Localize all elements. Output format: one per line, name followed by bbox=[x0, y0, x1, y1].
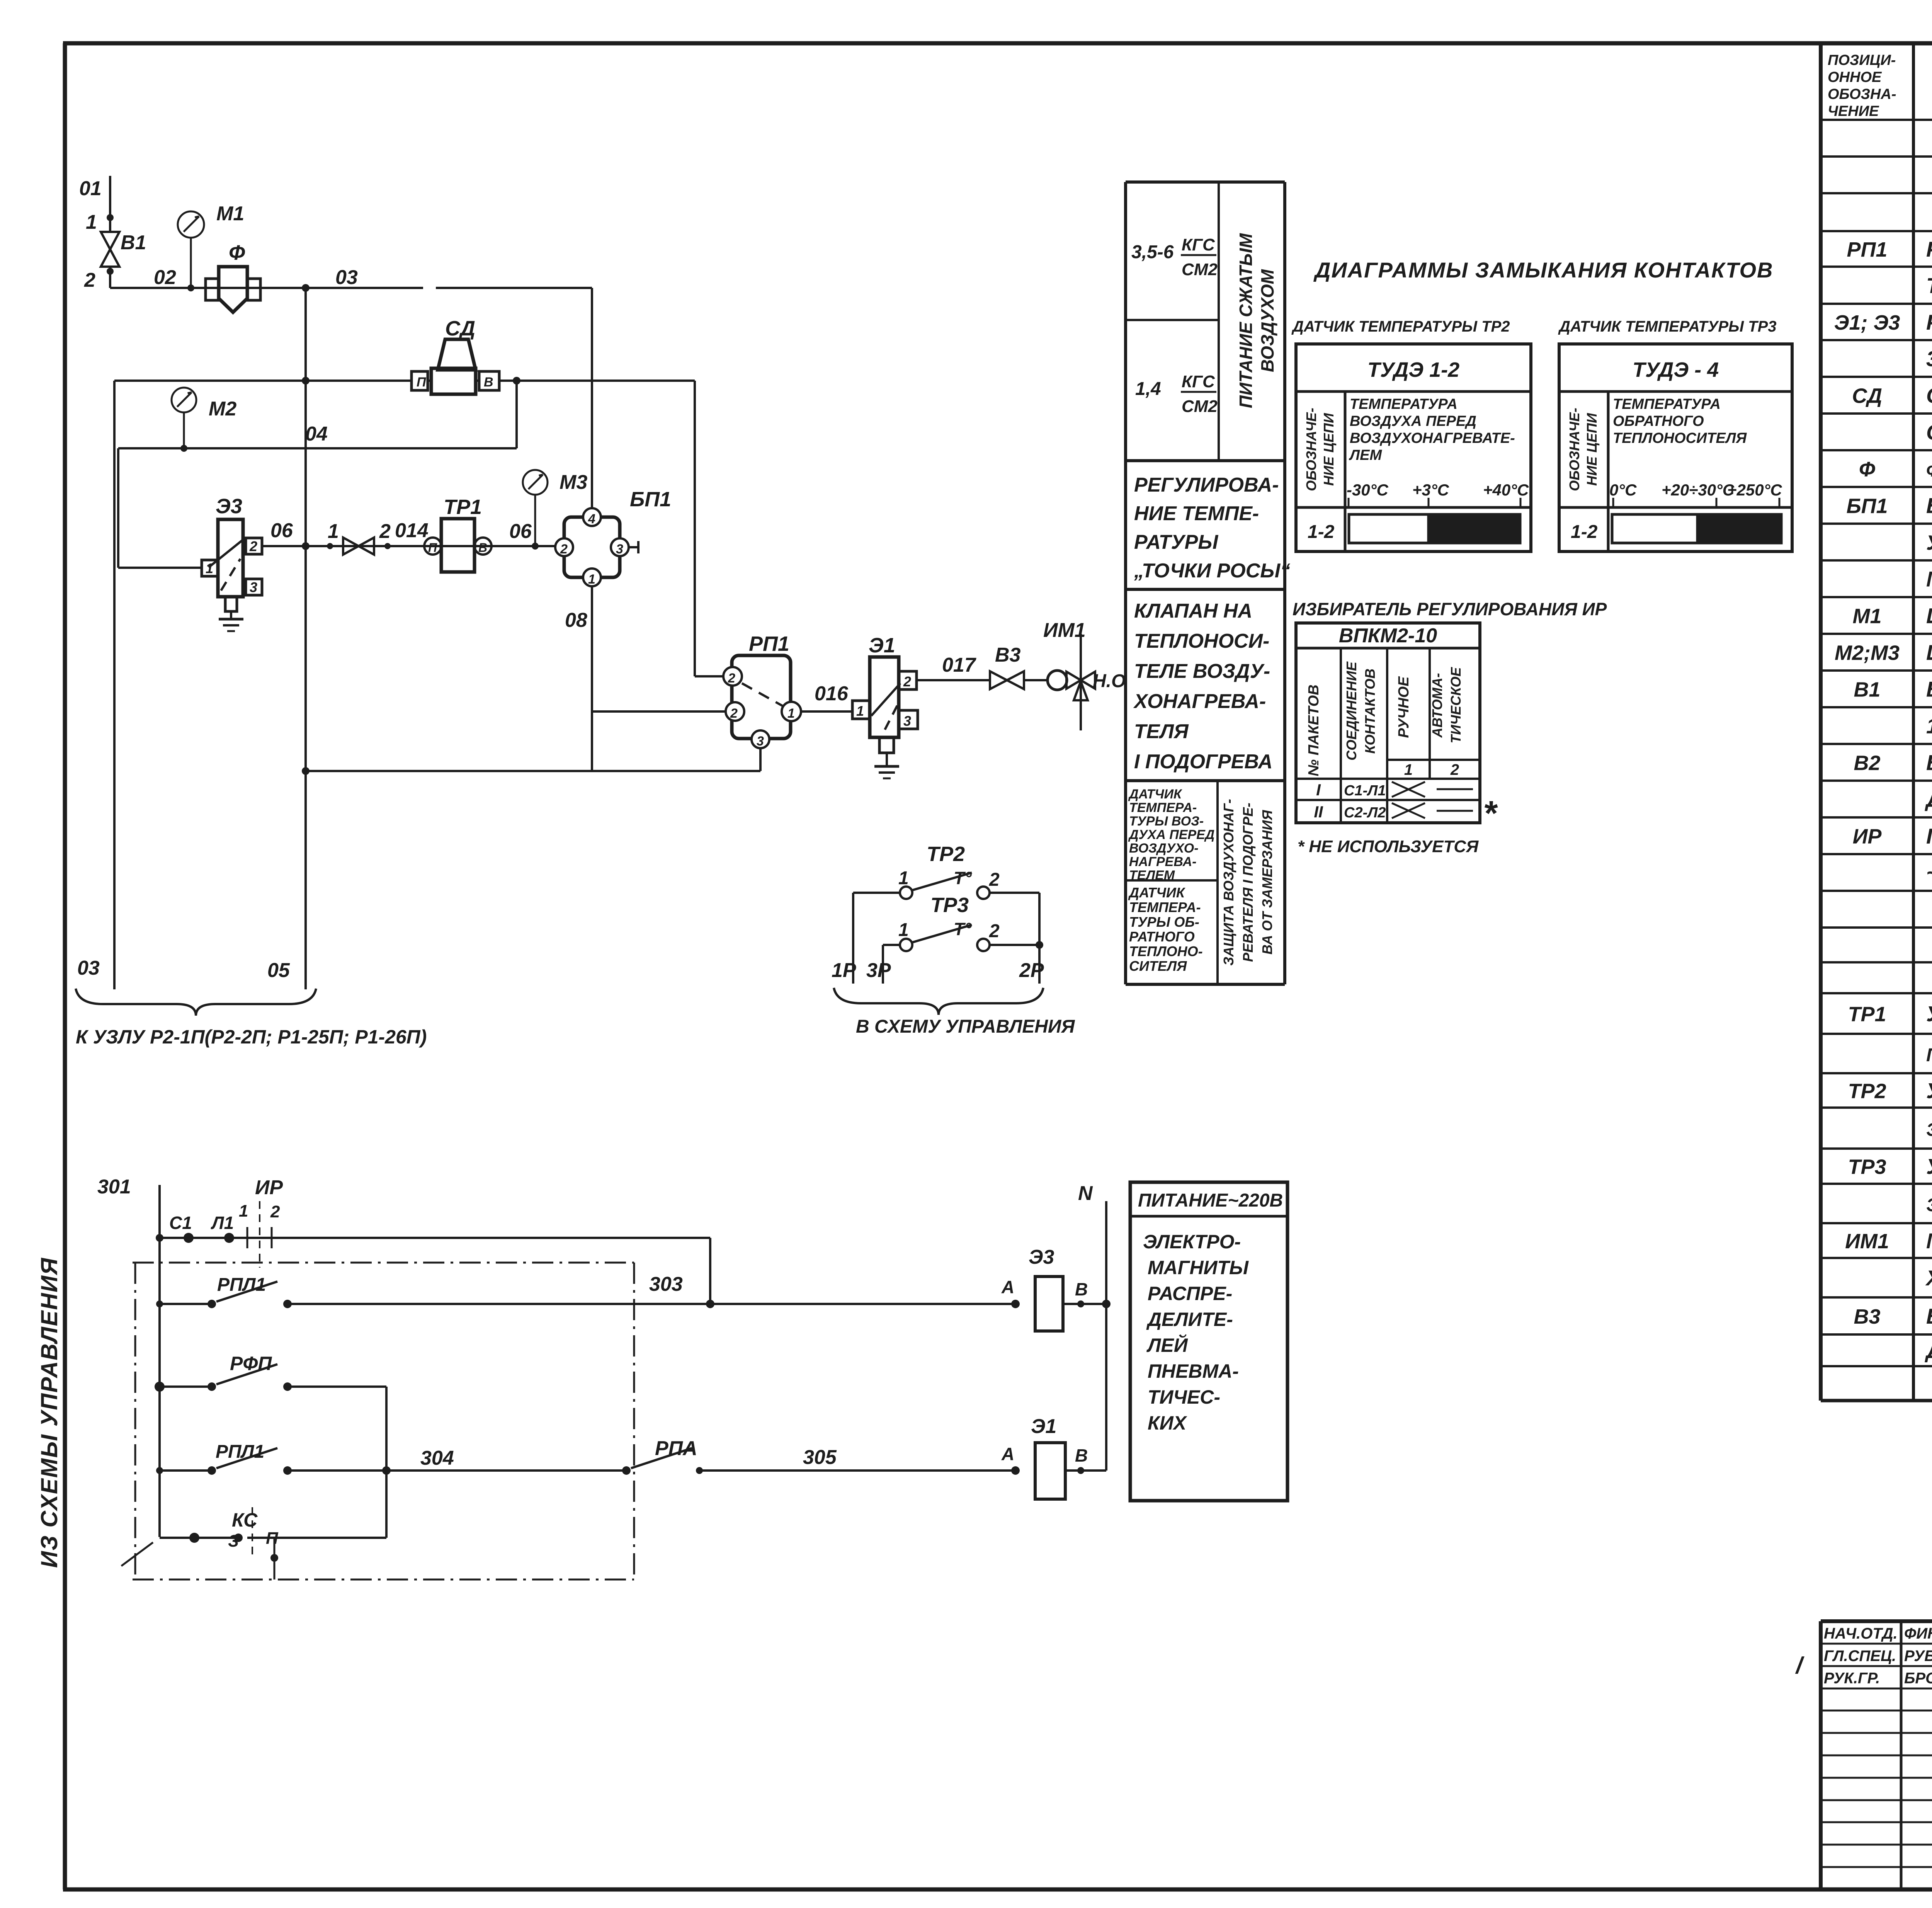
svg-text:* НЕ ИСПОЛЬЗУЕТСЯ: * НЕ ИСПОЛЬЗУЕТСЯ bbox=[1298, 837, 1479, 856]
svg-text:ПИТАНИЕ СЖАТЫМ: ПИТАНИЕ СЖАТЫМ bbox=[1236, 233, 1256, 408]
svg-text:РЕВАТЕЛЯ I ПОДОГРЕ-: РЕВАТЕЛЯ I ПОДОГРЕ- bbox=[1240, 803, 1256, 962]
svg-text:УСТРОЙСТВО ТЕРМОРЕГУЛИРУЮЩЕЕ: УСТРОЙСТВО ТЕРМОРЕГУЛИРУЮЩЕЕ bbox=[1926, 1002, 1932, 1026]
svg-text:МАГНИТЫ: МАГНИТЫ bbox=[1148, 1257, 1249, 1278]
svg-text:НАГРЕВА-: НАГРЕВА- bbox=[1129, 854, 1196, 869]
svg-text:КГС: КГС bbox=[1182, 372, 1215, 391]
svg-text:ЭЛЕКТРИЧЕСКОЕ ТУДЭ-1-2 ТУ25-: ЭЛЕКТРИЧЕСКОЕ ТУДЭ-1-2 ТУ25-02.1075-75 bbox=[1926, 1119, 1932, 1140]
svg-text:В СХЕМУ УПРАВЛЕНИЯ: В СХЕМУ УПРАВЛЕНИЯ bbox=[856, 1016, 1075, 1037]
svg-text:04: 04 bbox=[305, 423, 328, 445]
svg-text:ИР: ИР bbox=[1853, 825, 1882, 848]
svg-text:I ПОДОГРЕВА: I ПОДОГРЕВА bbox=[1134, 751, 1272, 773]
svg-text:СИТЕЛЯ: СИТЕЛЯ bbox=[1129, 958, 1187, 974]
svg-text:М1: М1 bbox=[216, 203, 244, 225]
svg-text:А: А bbox=[1001, 1444, 1014, 1464]
svg-text:ТЕПЛОНО-: ТЕПЛОНО- bbox=[1129, 943, 1203, 959]
svg-text:РЕГУЛИРОВА-: РЕГУЛИРОВА- bbox=[1134, 474, 1279, 496]
svg-text:4: 4 bbox=[588, 512, 595, 526]
svg-text:МАНОМЕТРЫ МТ-2 ТУ25-02.72-: МАНОМЕТРЫ МТ-2 ТУ25-02.72-75 bbox=[1926, 567, 1932, 591]
svg-text:РПЛ1: РПЛ1 bbox=[216, 1442, 264, 1462]
svg-text:НАЧ.ОТД.: НАЧ.ОТД. bbox=[1824, 1625, 1898, 1642]
svg-text:Н.О: Н.О bbox=[1093, 671, 1126, 691]
svg-text:ДАТЧИК ТЕМПЕРАТУРЫ ТР3: ДАТЧИК ТЕМПЕРАТУРЫ ТР3 bbox=[1558, 318, 1777, 335]
svg-text:ПНЕВМАТИЧЕСКОЕ ТУДП-М-1 ТУ25-0: ПНЕВМАТИЧЕСКОЕ ТУДП-М-1 ТУ25-02.1297-74 bbox=[1926, 1045, 1932, 1065]
svg-text:С2-Л2: С2-Л2 bbox=[1344, 805, 1386, 821]
svg-text:ТЕПЛОНОСИ-: ТЕПЛОНОСИ- bbox=[1134, 630, 1269, 652]
svg-text:014: 014 bbox=[395, 519, 429, 542]
svg-text:ДАТЧИК: ДАТЧИК bbox=[1128, 787, 1182, 802]
svg-text:ТР1: ТР1 bbox=[444, 495, 482, 519]
svg-text:В1: В1 bbox=[1854, 678, 1880, 701]
svg-text:РФП: РФП bbox=[230, 1353, 272, 1374]
svg-text:ТУДЭ 1-2: ТУДЭ 1-2 bbox=[1367, 358, 1459, 381]
svg-text:ШКАЛА 0÷2,5КГС/СМ2: ШКАЛА 0÷2,5КГС/СМ2 bbox=[1926, 640, 1932, 665]
svg-text:В: В bbox=[478, 541, 487, 555]
svg-text:МЕМБРАННЫЙ ИСПОЛНИТЕЛЬНЫЙ МЕ: МЕМБРАННЫЙ ИСПОЛНИТЕЛЬНЫЙ МЕ- bbox=[1926, 1229, 1932, 1253]
svg-text:ТЕМПЕРАТУРА: ТЕМПЕРАТУРА bbox=[1613, 396, 1721, 412]
svg-text:ИЗ СХЕМЫ УПРАВЛЕНИЯ: ИЗ СХЕМЫ УПРАВЛЕНИЯ bbox=[36, 1257, 62, 1568]
svg-text:РП1: РП1 bbox=[749, 632, 789, 655]
svg-text:ЧЕНИЕ: ЧЕНИЕ bbox=[1828, 103, 1879, 119]
svg-text:06: 06 bbox=[270, 519, 293, 542]
svg-text:РУК.ГР.: РУК.ГР. bbox=[1824, 1670, 1880, 1687]
svg-text:+20÷30°С: +20÷30°С bbox=[1662, 481, 1735, 499]
svg-text:РАТУРЫ: РАТУРЫ bbox=[1134, 531, 1218, 553]
svg-text:КЛАПАН НА: КЛАПАН НА bbox=[1134, 600, 1252, 622]
svg-text:ДАТЧИК ТЕМПЕРАТУРЫ ТР2: ДАТЧИК ТЕМПЕРАТУРЫ ТР2 bbox=[1291, 318, 1510, 335]
svg-text:ТИЧЕС-: ТИЧЕС- bbox=[1148, 1386, 1220, 1408]
svg-text:3х ХОДОВОЙ 22КЧ8016К ТУ25-07.0: 3х ХОДОВОЙ 22КЧ8016К ТУ25-07.034-76 bbox=[1926, 346, 1932, 371]
svg-text:ЭЛЕКТРИЧЕСКОЕ ТУДЭ-4 ТУ25-0: ЭЛЕКТРИЧЕСКОЕ ТУДЭ-4 ТУ25-02.1075-75 bbox=[1926, 1195, 1932, 1215]
svg-text:ТУРЫ ОБ-: ТУРЫ ОБ- bbox=[1129, 914, 1199, 930]
svg-text:СД: СД bbox=[445, 317, 475, 340]
svg-text:03: 03 bbox=[77, 957, 100, 979]
svg-text:2: 2 bbox=[249, 538, 257, 554]
svg-text:ТР3: ТР3 bbox=[930, 894, 969, 917]
svg-text:ВЕНТИЛЬ ДИАФРАГМОВЫЙ ВПД-: ВЕНТИЛЬ ДИАФРАГМОВЫЙ ВПД-4, bbox=[1926, 1304, 1932, 1328]
svg-text:РЕЛЕ ПЕРЕКЛЮЧЕНИЯ ПП2,5: РЕЛЕ ПЕРЕКЛЮЧЕНИЯ ПП2,5 bbox=[1926, 237, 1932, 261]
svg-text:Ф: Ф bbox=[229, 241, 245, 264]
svg-text:М1: М1 bbox=[1852, 605, 1881, 628]
svg-text:РП1: РП1 bbox=[1847, 238, 1888, 261]
svg-text:06: 06 bbox=[509, 520, 532, 543]
svg-text:3,5-6: 3,5-6 bbox=[1131, 242, 1174, 262]
svg-text:ТР2: ТР2 bbox=[927, 843, 965, 866]
svg-text:ЛЕМ: ЛЕМ bbox=[1349, 447, 1382, 463]
svg-text:Э1: Э1 bbox=[1031, 1415, 1056, 1438]
svg-text:А: А bbox=[1001, 1277, 1014, 1297]
svg-text:ОННОЕ: ОННОЕ bbox=[1828, 69, 1882, 85]
svg-text:БАЙПАСНАЯ ПАНЕЛЬ ДИСТАНЦИОНН: БАЙПАСНАЯ ПАНЕЛЬ ДИСТАНЦИОННОГО bbox=[1926, 494, 1932, 518]
svg-text:КС: КС bbox=[232, 1509, 258, 1531]
svg-text:0°С: 0°С bbox=[1609, 481, 1637, 499]
svg-text:ТР2: ТР2 bbox=[1848, 1080, 1886, 1103]
svg-text:НИЕ ТЕМПЕ-: НИЕ ТЕМПЕ- bbox=[1134, 502, 1259, 525]
svg-text:+40°С: +40°С bbox=[1483, 481, 1529, 499]
svg-text:ТР3: ТР3 bbox=[1848, 1156, 1886, 1179]
svg-text:+3°С: +3°С bbox=[1412, 481, 1449, 499]
svg-text:N: N bbox=[1078, 1182, 1093, 1205]
svg-text:2: 2 bbox=[728, 671, 735, 686]
svg-text:ТИЧЕСКОЕ: ТИЧЕСКОЕ bbox=[1448, 667, 1464, 743]
svg-text:Э3: Э3 bbox=[1029, 1246, 1054, 1268]
svg-text:2: 2 bbox=[730, 706, 738, 721]
svg-text:08: 08 bbox=[565, 609, 587, 631]
svg-text:БП1: БП1 bbox=[1846, 495, 1888, 518]
svg-text:3: 3 bbox=[250, 579, 257, 595]
svg-text:ТЕМПЕРАТУРА: ТЕМПЕРАТУРА bbox=[1350, 396, 1458, 412]
svg-text:ВА ОТ ЗАМЕРЗАНИЯ: ВА ОТ ЗАМЕРЗАНИЯ bbox=[1259, 810, 1275, 954]
svg-text:2: 2 bbox=[84, 269, 95, 291]
svg-text:*: * bbox=[1483, 794, 1498, 833]
svg-text:ДЕЛИТЕ-: ДЕЛИТЕ- bbox=[1146, 1309, 1233, 1330]
svg-text:+250°С: +250°С bbox=[1727, 481, 1782, 499]
svg-text:ХОНАГРЕВА-: ХОНАГРЕВА- bbox=[1133, 690, 1266, 713]
svg-text:С1: С1 bbox=[169, 1213, 192, 1233]
svg-text:В: В bbox=[1075, 1445, 1088, 1465]
svg-text:СОЕДИНЕНИЕ: СОЕДИНЕНИЕ bbox=[1344, 661, 1359, 761]
svg-text:М2;М3: М2;М3 bbox=[1835, 642, 1900, 665]
svg-text:2: 2 bbox=[560, 542, 568, 557]
svg-text:Ф: Ф bbox=[1859, 458, 1875, 481]
svg-text:Э3: Э3 bbox=[216, 495, 242, 518]
svg-text:П: П bbox=[428, 541, 437, 555]
svg-text:1: 1 bbox=[898, 868, 909, 888]
svg-text:С1-Л1: С1-Л1 bbox=[1344, 783, 1386, 799]
svg-text:КОНТАКТОВ: КОНТАКТОВ bbox=[1362, 669, 1378, 754]
svg-text:СМ2: СМ2 bbox=[1182, 397, 1218, 416]
svg-text:II: II bbox=[1314, 803, 1323, 821]
svg-text:3: 3 bbox=[616, 542, 623, 557]
svg-text:ЗАЩИТА ВОЗДУХОНАГ-: ЗАЩИТА ВОЗДУХОНАГ- bbox=[1221, 799, 1236, 965]
svg-text:ЭЛЕКТРО-: ЭЛЕКТРО- bbox=[1143, 1231, 1241, 1253]
svg-text:П: П bbox=[417, 375, 427, 390]
svg-text:2: 2 bbox=[989, 921, 1000, 941]
svg-text:ТЕМПЕРА-: ТЕМПЕРА- bbox=[1129, 800, 1197, 815]
svg-text:СМ2: СМ2 bbox=[1182, 260, 1218, 279]
svg-text:РПА: РПА bbox=[655, 1437, 697, 1460]
svg-text:1: 1 bbox=[1404, 761, 1413, 778]
svg-text:ХАНИЗМ ГОСТ 9086-74: ХАНИЗМ ГОСТ 9086-74 bbox=[1925, 1266, 1932, 1290]
svg-text:„ТОЧКИ РОСЫ“: „ТОЧКИ РОСЫ“ bbox=[1134, 560, 1290, 582]
svg-text:1: 1 bbox=[239, 1202, 248, 1220]
svg-text:1: 1 bbox=[206, 560, 213, 576]
svg-text:В2: В2 bbox=[1854, 752, 1880, 775]
svg-text:ДУ4 ТУ26-07.1085-74: ДУ4 ТУ26-07.1085-74 bbox=[1925, 1338, 1932, 1363]
svg-text:М2: М2 bbox=[209, 398, 236, 420]
svg-text:1: 1 bbox=[86, 211, 97, 233]
svg-text:ГЛ.СПЕЦ.: ГЛ.СПЕЦ. bbox=[1824, 1648, 1896, 1665]
svg-text:М3: М3 bbox=[560, 471, 587, 494]
svg-text:СДВ Б ТУ25-02.280.656-76: СДВ Б ТУ25-02.280.656-76 bbox=[1926, 420, 1932, 444]
svg-text:ИМ1: ИМ1 bbox=[1043, 619, 1086, 642]
svg-text:КГС: КГС bbox=[1182, 235, 1215, 254]
svg-text:016: 016 bbox=[815, 683, 849, 705]
svg-text:1-2: 1-2 bbox=[1571, 522, 1598, 542]
svg-text:05: 05 bbox=[267, 959, 290, 982]
svg-text:УПРАВЛЕНИЯ БПДУ-А ТУ25-04.27: УПРАВЛЕНИЯ БПДУ-А ТУ25-04.2712-75 bbox=[1926, 531, 1932, 555]
svg-text:2Р: 2Р bbox=[1019, 959, 1044, 982]
svg-text:1: 1 bbox=[898, 920, 909, 940]
svg-text:БП1: БП1 bbox=[630, 488, 671, 511]
svg-text:017: 017 bbox=[942, 654, 976, 676]
svg-text:303: 303 bbox=[649, 1273, 683, 1295]
svg-text:ШКАЛА 0÷10 КГС/СМ2: ШКАЛА 0÷10 КГС/СМ2 bbox=[1926, 604, 1932, 628]
svg-text:1: 1 bbox=[856, 703, 864, 719]
svg-text:ИМ1: ИМ1 bbox=[1845, 1230, 1889, 1253]
svg-text:ДУ4 ТУ26-07.1085-7: ДУ4 ТУ26-07.1085-74 bbox=[1925, 787, 1932, 812]
svg-text:304: 304 bbox=[420, 1447, 454, 1469]
svg-text:ВЕНТИЛЬ ЗАПОРНЫЙ МУФТОВЫЙ: ВЕНТИЛЬ ЗАПОРНЫЙ МУФТОВЫЙ bbox=[1926, 677, 1932, 701]
svg-text:ТУРЫ ВОЗ-: ТУРЫ ВОЗ- bbox=[1129, 814, 1204, 829]
svg-text:ПОЗИЦИ-: ПОЗИЦИ- bbox=[1828, 52, 1896, 68]
svg-text:НИЕ ЦЕПИ: НИЕ ЦЕПИ bbox=[1584, 413, 1600, 486]
svg-text:1,4: 1,4 bbox=[1135, 379, 1161, 399]
svg-text:РПЛ1: РПЛ1 bbox=[217, 1275, 266, 1295]
svg-text:НИЕ ЦЕПИ: НИЕ ЦЕПИ bbox=[1321, 413, 1337, 486]
svg-text:РУБЧИНСКИЙ: РУБЧИНСКИЙ bbox=[1904, 1646, 1932, 1665]
svg-text:ВОЗДУХОМ: ВОЗДУХОМ bbox=[1257, 269, 1277, 372]
svg-text:В: В bbox=[484, 375, 493, 390]
svg-text:В: В bbox=[1075, 1279, 1088, 1299]
svg-text:ТУ25-03.1369-72: ТУ25-03.1369-72 bbox=[1926, 273, 1932, 298]
svg-text:РАСПРЕ-: РАСПРЕ- bbox=[1148, 1283, 1232, 1304]
svg-text:ДУХА ПЕРЕД: ДУХА ПЕРЕД bbox=[1128, 827, 1214, 842]
svg-text:305: 305 bbox=[803, 1446, 837, 1469]
svg-text:АВТОМА-: АВТОМА- bbox=[1429, 673, 1445, 738]
svg-text:ИР: ИР bbox=[255, 1176, 283, 1199]
svg-text:ТЕМПЕРА-: ТЕМПЕРА- bbox=[1129, 899, 1201, 915]
svg-text:3Р: 3Р bbox=[866, 959, 891, 982]
svg-text:ОБОЗНАЧЕ-: ОБОЗНАЧЕ- bbox=[1566, 408, 1582, 491]
svg-text:УСТРОЙСТВО ТЕРМОРЕГУЛИРУЮЩЕЕ: УСТРОЙСТВО ТЕРМОРЕГУЛИРУЮЩЕЕ bbox=[1926, 1079, 1932, 1103]
svg-text:1-2: 1-2 bbox=[1308, 522, 1335, 542]
svg-text:ДИАГРАММЫ ЗАМЫКАНИЯ КОНТАКТОВ: ДИАГРАММЫ ЗАМЫКАНИЯ КОНТАКТОВ bbox=[1313, 258, 1773, 282]
svg-text:2: 2 bbox=[270, 1202, 280, 1221]
svg-text:ДАТЧИК: ДАТЧИК bbox=[1128, 885, 1186, 900]
svg-text:/: / bbox=[1795, 1653, 1804, 1678]
svg-text:ВОЗДУХОНАГРЕВАТЕ-: ВОЗДУХОНАГРЕВАТЕ- bbox=[1350, 430, 1515, 446]
svg-text:ФИНГЕР: ФИНГЕР bbox=[1904, 1625, 1932, 1642]
svg-text:КИХ: КИХ bbox=[1148, 1412, 1187, 1434]
svg-text:15Б3РК; ДУ15 ГОСТ9086: 15Б3РК; ДУ15 ГОСТ9086-74 bbox=[1926, 714, 1932, 738]
svg-text:К УЗЛУ Р2-1П(Р2-2П; Р1-25П; Р1: К УЗЛУ Р2-1П(Р2-2П; Р1-25П; Р1-26П) bbox=[76, 1026, 427, 1048]
svg-text:ТЕПЛОНОСИТЕЛЯ: ТЕПЛОНОСИТЕЛЯ bbox=[1613, 430, 1747, 446]
svg-text:01: 01 bbox=[79, 177, 102, 200]
svg-text:Л1: Л1 bbox=[211, 1213, 234, 1233]
svg-text:УСТРОЙСТВО ТЕРМОРЕГУЛИРУЮЩЕЕ: УСТРОЙСТВО ТЕРМОРЕГУЛИРУЮЩЕЕ bbox=[1926, 1154, 1932, 1179]
svg-text:2: 2 bbox=[989, 870, 1000, 890]
svg-text:301: 301 bbox=[97, 1176, 131, 1198]
svg-text:-30°С: -30°С bbox=[1347, 481, 1388, 499]
svg-text:ТЕЛЕ ВОЗДУ-: ТЕЛЕ ВОЗДУ- bbox=[1134, 660, 1270, 683]
svg-text:№ ПАКЕТОВ: № ПАКЕТОВ bbox=[1306, 684, 1322, 776]
svg-text:1: 1 bbox=[328, 520, 339, 543]
svg-text:~220В; 10А; ОСТ16.0526.00: ~220В; 10А; ОСТ16.0526.001-77 bbox=[1926, 861, 1932, 885]
svg-text:ВОЗДУХО-: ВОЗДУХО- bbox=[1129, 841, 1199, 856]
svg-text:ЛЕЙ: ЛЕЙ bbox=[1146, 1334, 1188, 1356]
svg-text:1Р: 1Р bbox=[832, 959, 856, 982]
svg-text:В1: В1 bbox=[121, 231, 146, 254]
svg-text:ПИТАНИЕ~220В: ПИТАНИЕ~220В bbox=[1138, 1190, 1283, 1211]
svg-text:1: 1 bbox=[588, 572, 595, 587]
svg-text:1: 1 bbox=[787, 706, 795, 721]
svg-text:ФИЛЬТР ВОЗДУХА Ф86-02 ТУ25-: ФИЛЬТР ВОЗДУХА Ф86-02 ТУ25-02.280666-76 bbox=[1926, 461, 1932, 480]
svg-text:ТУДЭ - 4: ТУДЭ - 4 bbox=[1633, 358, 1719, 381]
svg-text:Э1: Э1 bbox=[869, 634, 895, 657]
svg-text:В3: В3 bbox=[995, 644, 1021, 666]
svg-text:I: I bbox=[1316, 781, 1321, 799]
svg-text:2: 2 bbox=[1450, 761, 1459, 778]
svg-text:ОБОЗНАЧЕ-: ОБОЗНАЧЕ- bbox=[1303, 408, 1319, 491]
svg-text:ТР1: ТР1 bbox=[1848, 1003, 1886, 1026]
svg-text:В3: В3 bbox=[1854, 1305, 1880, 1328]
svg-text:ТЕЛЯ: ТЕЛЯ bbox=[1134, 720, 1189, 743]
svg-text:ТЕЛЕМ: ТЕЛЕМ bbox=[1129, 868, 1175, 883]
svg-text:ПАКЕТНЫЙ ВЫКЛЮЧАТЕЛЬ ВПКМ2: ПАКЕТНЫЙ ВЫКЛЮЧАТЕЛЬ ВПКМ2-10 bbox=[1926, 824, 1932, 848]
svg-text:02: 02 bbox=[154, 266, 176, 289]
svg-text:РАТНОГО: РАТНОГО bbox=[1129, 929, 1195, 945]
svg-text:ВЕНТИЛЬ ДИАФРАГМОВЫЙ ВПД-4: ВЕНТИЛЬ ДИАФРАГМОВЫЙ ВПД-4 bbox=[1926, 751, 1932, 775]
svg-text:ИЗБИРАТЕЛЬ РЕГУЛИРОВАНИЯ ИР: ИЗБИРАТЕЛЬ РЕГУЛИРОВАНИЯ ИР bbox=[1293, 599, 1607, 619]
svg-text:ОБРАТНОГО: ОБРАТНОГО bbox=[1613, 413, 1704, 429]
svg-text:БРОНШТЕЙН: БРОНШТЕЙН bbox=[1904, 1669, 1932, 1687]
svg-text:03: 03 bbox=[335, 266, 358, 289]
svg-text:З: З bbox=[228, 1532, 239, 1551]
svg-text:ВПКМ2-10: ВПКМ2-10 bbox=[1339, 625, 1437, 647]
svg-text:2: 2 bbox=[379, 520, 391, 543]
svg-text:3: 3 bbox=[757, 734, 764, 749]
svg-text:ОБОЗНА-: ОБОЗНА- bbox=[1828, 86, 1896, 102]
svg-text:3: 3 bbox=[903, 713, 911, 729]
svg-text:РАСПРЕДЕЛИТЕЛЬ ПНЕВМАТИЧЕСКИЙ: РАСПРЕДЕЛИТЕЛЬ ПНЕВМАТИЧЕСКИЙ bbox=[1926, 310, 1932, 334]
svg-text:СД: СД bbox=[1852, 385, 1882, 408]
svg-text:ПНЕВМА-: ПНЕВМА- bbox=[1148, 1360, 1239, 1382]
svg-text:Э1; Э3: Э1; Э3 bbox=[1834, 311, 1900, 334]
svg-text:2: 2 bbox=[903, 674, 911, 689]
svg-text:СТАБИЛИЗАТОР ДАВЛЕНИЯ ВОЗДУХ: СТАБИЛИЗАТОР ДАВЛЕНИЯ ВОЗДУХА bbox=[1926, 383, 1932, 408]
svg-text:ВОЗДУХА ПЕРЕД: ВОЗДУХА ПЕРЕД bbox=[1350, 413, 1476, 429]
svg-text:РУЧНОЕ: РУЧНОЕ bbox=[1396, 676, 1412, 738]
